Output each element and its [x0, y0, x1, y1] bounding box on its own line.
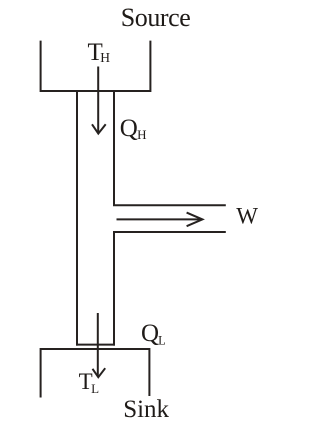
wire channel bottom — [76, 344, 115, 346]
source reservoir wall — [41, 41, 151, 91]
arrow QH heat input — [92, 67, 106, 134]
wire channel left — [76, 91, 78, 346]
svg-text:TH: TH — [88, 39, 111, 66]
svg-text:QH: QH — [120, 115, 147, 142]
svg-text:W: W — [236, 203, 258, 228]
arrow QL heat rejected — [93, 313, 106, 377]
svg-text:QL: QL — [141, 320, 166, 347]
svg-text:Sink: Sink — [123, 396, 169, 423]
wire channel right lower — [114, 232, 226, 346]
arrow W work output — [117, 213, 203, 227]
sink reservoir wall — [41, 349, 150, 398]
svg-text:Source: Source — [121, 3, 191, 32]
wire channel right upper — [114, 91, 226, 205]
